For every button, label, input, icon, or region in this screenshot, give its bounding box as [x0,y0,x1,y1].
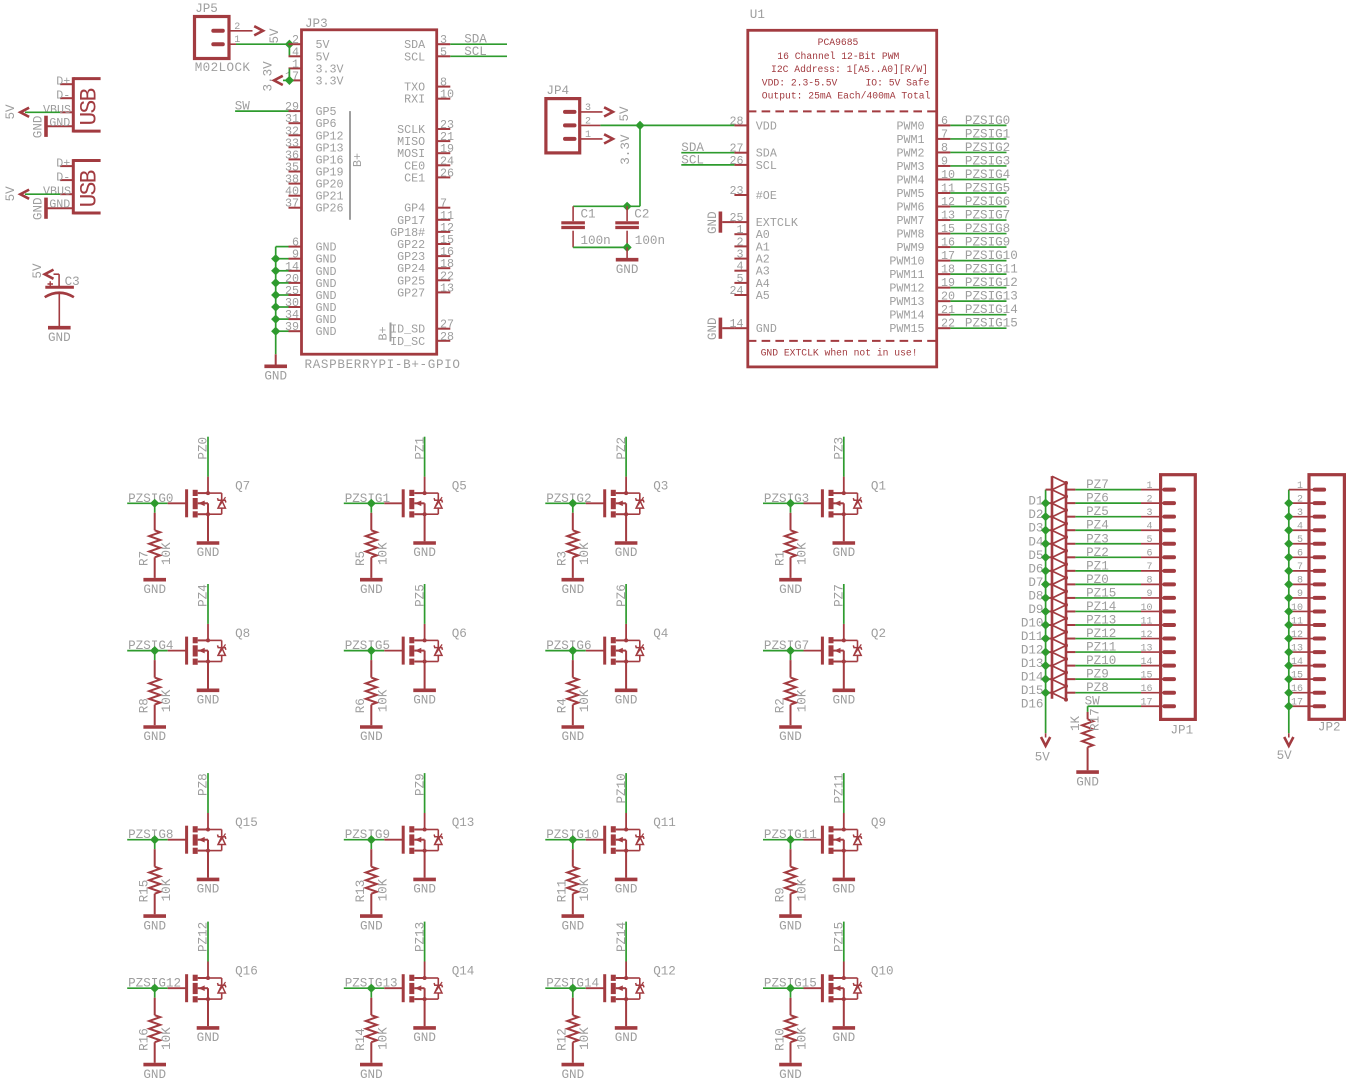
ground below R7 [143,578,166,582]
wire 5V to JP2 pin 6 [1289,556,1316,558]
svg-text:PWM0: PWM0 [896,119,924,133]
transistor Q10 N-MOSFET [804,987,823,989]
wire net PZ4 to JP1 pin 4 [1075,529,1141,531]
svg-text:R15: R15 [138,880,152,903]
transistor Q8 N-MOSFET [168,650,187,652]
wire drain net PZ5 [424,624,426,641]
svg-text:PWM14: PWM14 [889,309,924,323]
junction node at JP2 pin 3 [1284,512,1293,521]
junction node at JP2 pin 2 [1284,499,1293,508]
svg-text:PWM2: PWM2 [896,146,924,160]
ground below R13 [360,914,383,918]
svg-text:GND: GND [706,211,720,234]
svg-text:R2: R2 [773,698,787,713]
ground below R3 [562,578,585,582]
svg-text:GND: GND [832,546,855,560]
wire drain net PZ7 [843,624,845,641]
svg-text:3: 3 [1297,508,1303,519]
svg-text:PZSIG10: PZSIG10 [965,249,1018,263]
svg-text:PZ9: PZ9 [1086,668,1109,682]
svg-text:PWM8: PWM8 [896,228,924,242]
pin GND of USB 1 [46,125,73,127]
svg-text:GND: GND [832,1031,855,1045]
transistor Q12 N-MOSFET [586,987,605,989]
connector JP2 [1309,475,1344,720]
svg-text:10K: 10K [578,542,592,565]
wire drain net PZ1 [424,477,426,494]
ground below Q10 [833,1026,856,1030]
diode D15 [1046,678,1052,680]
svg-text:10: 10 [1291,603,1303,614]
pin D+ of USB 1 [60,83,73,85]
pin 9 GND of JP3 [289,258,302,260]
resistor R7 10K [154,513,156,531]
junction node GND [271,278,280,287]
wire VBUS to 5V arrow [25,193,60,195]
junction node at JP2 pin 5 [1284,539,1293,548]
ground below Q4 [615,688,638,692]
svg-text:GND: GND [143,1068,166,1082]
diode body D11 [1052,612,1066,619]
diode body D7 [1052,557,1066,564]
pin 5 A4 of U1 [734,282,747,284]
svg-text:PZSIG14: PZSIG14 [965,303,1018,317]
svg-text:SW: SW [1085,695,1101,709]
ground below R16 [143,1063,166,1067]
diode body D9 [1052,585,1066,592]
pin 8 PWM2 of U1 [937,151,951,153]
svg-text:C3: C3 [65,275,80,289]
svg-text:PWM6: PWM6 [896,201,924,215]
svg-text:PZSIG7: PZSIG7 [965,209,1010,223]
junction node PZSIG2 [568,499,577,508]
wire 5V to JP2 pin 3 [1289,516,1316,518]
svg-text:PZ5: PZ5 [413,584,427,607]
svg-text:R8: R8 [138,698,152,713]
pin 3 SDA of JP3 [437,43,451,45]
svg-text:IO: 5V Safe: IO: 5V Safe [865,78,929,89]
svg-text:USB: USB [77,170,103,207]
svg-text:PZ4: PZ4 [197,584,211,607]
wire net PZSIG4 [127,650,168,652]
svg-text:PZ7: PZ7 [833,584,847,607]
svg-text:R16: R16 [138,1028,152,1051]
svg-text:PZ13: PZ13 [1086,614,1116,628]
svg-text:D5: D5 [1028,549,1043,563]
svg-text:PZSIG5: PZSIG5 [965,182,1010,196]
diode D5 [1046,543,1052,545]
svg-text:GND: GND [756,322,777,336]
svg-text:PWM13: PWM13 [889,295,924,309]
svg-text:Q2: Q2 [871,627,886,641]
svg-text:12: 12 [1140,630,1152,641]
junction node PZSIG0 [150,499,159,508]
svg-text:PZ12: PZ12 [1086,627,1116,641]
svg-text:5V: 5V [4,104,18,120]
svg-text:R14: R14 [354,1028,368,1051]
IC JP3 RASPBERRYPI-B+-GPIO [302,30,437,354]
supply 5V arrow at JP4 pin3 [604,107,613,116]
svg-text:16 Channel 12-Bit PWM: 16 Channel 12-Bit PWM [777,51,899,62]
wire drain net PZ4 [207,624,209,641]
svg-text:9: 9 [941,154,948,168]
junction node at D6 anode [1041,553,1050,562]
junction node at JP2 pin 13 [1284,647,1293,656]
svg-text:GND: GND [197,883,220,897]
svg-text:5V: 5V [1277,749,1293,763]
svg-text:GND: GND [143,583,166,597]
svg-text:PZ1: PZ1 [413,437,427,460]
wire drain net PZ13 [424,962,426,979]
wire C3 to ground [58,293,60,326]
svg-text:Q16: Q16 [235,964,258,978]
svg-text:GND: GND [413,883,436,897]
svg-text:R11: R11 [556,880,570,903]
transistor Q5 N-MOSFET [384,502,403,504]
svg-text:Q3: Q3 [653,480,668,494]
svg-text:D3: D3 [1028,522,1043,536]
svg-text:8: 8 [941,141,948,155]
svg-text:R13: R13 [354,880,368,903]
svg-text:M02LOCK: M02LOCK [195,61,251,75]
svg-text:GND: GND [779,583,802,597]
svg-text:R5: R5 [354,551,368,566]
wire net SDA from JP3 pin3 [450,43,507,45]
ground below Q8 [197,688,220,692]
svg-text:PWM1: PWM1 [896,133,924,147]
svg-text:10: 10 [440,88,454,102]
svg-text:GND: GND [143,730,166,744]
pin 1 3.3V of JP3 [289,67,302,69]
diode body D6 [1052,544,1066,551]
svg-text:GND: GND [143,919,166,933]
wire net PZSIG14 [545,987,586,989]
svg-text:PWM12: PWM12 [889,282,924,296]
wire source of Q6 to ground [424,662,426,689]
ground below Q2 [833,688,856,692]
svg-text:Q1: Q1 [871,480,886,494]
svg-text:RASPBERRYPI-B+-GPIO: RASPBERRYPI-B+-GPIO [305,358,461,372]
svg-text:PZ15: PZ15 [833,922,847,952]
svg-text:GND: GND [561,583,584,597]
pin 24 CE0 of JP3 [437,164,451,166]
svg-text:11: 11 [1291,616,1303,627]
diode body D10 [1052,598,1066,605]
diode D1 [1046,489,1052,491]
svg-text:39: 39 [285,320,299,334]
wire net PZSIG2 [950,151,1006,153]
ground below Q3 [615,541,638,545]
wire source of Q15 to ground [207,851,209,878]
diode D14 [1046,665,1052,667]
ground below R10 [779,1063,802,1067]
svg-text:PWM3: PWM3 [896,160,924,174]
svg-text:PWM15: PWM15 [889,322,924,336]
wire net PZ7 to JP1 pin 1 [1075,489,1141,491]
svg-text:14: 14 [1291,657,1303,668]
svg-text:PZ0: PZ0 [197,437,211,460]
pin 21 PWM14 of U1 [937,314,951,316]
wire net PZSIG6 [950,206,1006,208]
pin GND of USB 2 [46,207,73,209]
svg-text:SCL: SCL [681,153,704,167]
diode body D14 [1052,652,1066,659]
junction node PZSIG5 [367,646,376,655]
wire net PZ11 to JP1 pin 13 [1075,651,1141,653]
supply 3.3V arrow at JP4 pin1 [604,134,613,143]
wire drain net PZ14 [625,962,627,979]
junction node PZSIG6 [568,646,577,655]
svg-text:11: 11 [1140,616,1152,627]
svg-text:GND: GND [561,1068,584,1082]
wire net PZSIG2 [545,502,586,504]
wire drain net PZ6 [625,624,627,641]
svg-text:PCA9685: PCA9685 [818,37,859,48]
svg-text:JP1: JP1 [1171,724,1194,738]
wire 5V down to decoupling caps [639,125,641,206]
wire 5V to JP2 pin 13 [1289,651,1316,653]
svg-text:5V: 5V [618,106,632,122]
svg-text:PZSIG6: PZSIG6 [965,195,1010,209]
wire net PZSIG5 [344,650,385,652]
junction node at D13 anode [1041,647,1050,656]
diode body bottom [1052,693,1066,700]
svg-text:SCL: SCL [464,45,487,59]
ground below C2 [616,258,639,262]
transistor Q4 N-MOSFET [586,650,605,652]
wire net GND along JP3 ground pins [275,247,277,355]
svg-text:JP2: JP2 [1318,721,1341,735]
svg-text:Q15: Q15 [235,816,258,830]
capacitor C1 100n [572,206,574,221]
pin D- of USB 2 [60,179,73,181]
wire net PZ15 to JP1 pin 9 [1075,597,1141,599]
wire GND stub [275,354,277,364]
ground at USB 2 [44,198,48,219]
svg-text:PWM4: PWM4 [896,173,924,187]
diode D11 [1046,624,1052,626]
svg-text:SCL: SCL [404,50,425,64]
pin 24 A5 of U1 [734,294,747,296]
transistor Q16 N-MOSFET [168,987,187,989]
svg-text:C1: C1 [581,208,596,222]
transistor Q6 N-MOSFET [384,650,403,652]
svg-text:PZ3: PZ3 [1086,532,1109,546]
wire net PZSIG15 [763,987,804,989]
wire source of Q10 to ground [843,999,845,1026]
wire net SW to JP1 pin 17 [1088,705,1141,707]
diode D6 [1046,556,1052,558]
svg-text:PWM5: PWM5 [896,187,924,201]
wire net PZ3 to JP1 pin 5 [1075,543,1141,545]
junction node at JP2 pin 7 [1284,566,1293,575]
svg-text:PZ11: PZ11 [1086,641,1116,655]
ground below Q15 [197,878,220,882]
junction node GND [271,302,280,311]
pin 17 3.3V of JP3 [289,79,302,81]
svg-text:13: 13 [1140,643,1152,654]
svg-text:D-: D- [56,171,70,185]
connector JP5 M02LOCK [195,17,230,59]
svg-text:6: 6 [1146,549,1152,560]
svg-text:PZ4: PZ4 [1086,519,1109,533]
pin 40 GP21 of JP3 [289,195,302,197]
diode body D13 [1052,639,1066,646]
svg-text:GND: GND [264,370,287,384]
junction node at D14 anode [1041,661,1050,670]
svg-text:D2: D2 [1028,508,1043,522]
svg-text:10: 10 [1140,603,1152,614]
svg-text:GND: GND [615,1031,638,1045]
pin 14 GND of JP3 [289,270,302,272]
svg-text:10K: 10K [578,878,592,901]
ground below Q9 [833,878,856,882]
svg-text:GND: GND [32,197,46,220]
svg-text:U1: U1 [750,8,765,22]
svg-text:VDD: 2.3-5.5V: VDD: 2.3-5.5V [762,78,838,89]
wire net PZSIG11 [763,839,804,841]
wire net PZ12 to JP1 pin 12 [1075,638,1141,640]
bus marker B+ at ID_SD/ID_SC [390,323,392,342]
wire PZSIG15 to R gate pulldown [790,988,792,998]
ground at U1 EXTCLK pin25 [719,212,723,233]
svg-text:7: 7 [941,127,948,141]
wire source of Q12 to ground [625,999,627,1026]
wire drain net PZ0 [207,477,209,494]
diode D7 [1046,570,1052,572]
wire 5V to C3 [54,273,60,275]
pin 27 SDA of U1 [734,152,747,154]
svg-text:GND: GND [197,694,220,708]
svg-text:10K: 10K [160,542,174,565]
wire drain net PZ9 [424,813,426,830]
svg-text:PZ8: PZ8 [1086,681,1109,695]
svg-text:VBUS: VBUS [43,185,71,199]
junction node at D10 anode [1041,607,1050,616]
svg-text:GND: GND [360,919,383,933]
svg-text:17: 17 [1291,698,1303,709]
svg-text:PWM11: PWM11 [889,268,924,282]
svg-text:8: 8 [1297,576,1303,587]
pin 28 ID_SC of JP3 [437,340,451,342]
svg-text:16: 16 [1140,684,1152,695]
junction node at JP2 pin 17 [1284,702,1293,711]
svg-text:D15: D15 [1021,684,1044,698]
svg-text:100n: 100n [635,234,665,248]
pin 11 PWM5 of U1 [937,192,951,194]
junction node at D8 anode [1041,580,1050,589]
ground below Q5 [413,541,436,545]
wire net PZSIG11 [950,273,1006,275]
diode array cathode rail [1065,483,1068,700]
pin 22 GP25 of JP3 [437,279,451,281]
svg-text:D7: D7 [1028,576,1043,590]
wire PZSIG5 to R gate pulldown [370,651,372,661]
svg-text:10K: 10K [578,689,592,712]
svg-text:R3: R3 [556,551,570,566]
resistor R13 10K [370,849,372,867]
ground below R14 [360,1063,383,1067]
svg-text:R4: R4 [556,698,570,713]
pin 29 GP5 of JP3 [289,110,302,112]
junction node PZSIG9 [367,835,376,844]
svg-text:PZ3: PZ3 [833,437,847,460]
wire drain net PZ2 [625,477,627,494]
pin 2 5V of JP3 [289,43,302,45]
wire to ground [626,247,628,258]
svg-text:GND: GND [615,546,638,560]
supply 5V arrow at JP5 pin 2 [254,26,263,35]
diode body D15 [1052,666,1066,673]
pin 8 TXO of JP3 [437,86,451,88]
pin 32 GP12 of JP3 [289,134,302,136]
pin 16 PWM9 of U1 [937,246,951,248]
diode D13 [1046,651,1052,653]
pin 10 RXI of JP3 [437,98,451,100]
wire drain net PZ10 [625,813,627,830]
svg-text:D12: D12 [1021,644,1044,658]
svg-text:7: 7 [1297,562,1303,573]
resistor R15 10K [154,849,156,867]
pin 13 GP27 of JP3 [437,291,451,293]
wire PZSIG7 to R gate pulldown [790,651,792,661]
svg-text:PZSIG8: PZSIG8 [965,222,1010,236]
pin 28 VDD of U1 [734,124,747,126]
diode D4 [1046,529,1052,531]
supply 5V arrow below JP2 [1288,733,1290,737]
svg-text:#OE: #OE [756,189,777,203]
svg-text:13: 13 [1291,643,1303,654]
ground below R17 [1076,770,1099,774]
svg-text:PZ0: PZ0 [1086,573,1109,587]
diode body D4 [1052,517,1066,524]
junction node PZSIG8 [150,835,159,844]
junction node GND [271,315,280,324]
wire source of Q11 to ground [625,851,627,878]
wire PZSIG9 to R gate pulldown [370,840,372,850]
svg-text:1K: 1K [1069,715,1083,731]
pin 12 PWM6 of U1 [937,206,951,208]
svg-text:Output: 25mA Each/400mA Total: Output: 25mA Each/400mA Total [762,91,931,102]
junction node GND at C2 bottom [623,243,632,252]
svg-text:GND: GND [49,198,70,212]
svg-text:10K: 10K [376,1027,390,1050]
svg-text:PZSIG3: PZSIG3 [965,154,1010,168]
svg-text:PZ10: PZ10 [615,773,629,803]
svg-text:PZSIG4: PZSIG4 [965,168,1010,182]
junction node PZSIG13 [367,984,376,993]
junction node PZSIG3 [786,499,795,508]
svg-text:13: 13 [440,281,454,295]
svg-text:GND: GND [48,331,71,345]
wire 5V down to JP3 pin4 [288,44,290,56]
svg-text:GND: GND [360,730,383,744]
svg-text:PZ15: PZ15 [1086,586,1116,600]
svg-text:16: 16 [1291,684,1303,695]
junction node at JP2 pin 10 [1284,607,1293,616]
svg-text:GND: GND [832,883,855,897]
wire net PZSIG10 [950,260,1006,262]
ground below R12 [562,1063,585,1067]
svg-text:PWM10: PWM10 [889,255,924,269]
resistor R3 10K [572,513,574,531]
diode D3 [1046,516,1052,518]
svg-text:6: 6 [941,114,948,128]
svg-text:5V: 5V [1035,750,1051,764]
wire source of Q7 to ground [207,514,209,541]
wire net PZ14 to JP1 pin 10 [1075,610,1141,612]
svg-text:5: 5 [1297,535,1303,546]
